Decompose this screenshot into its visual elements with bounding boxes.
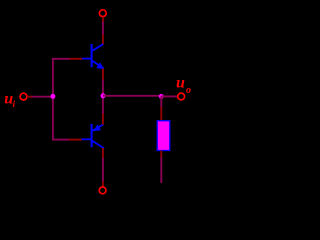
- wire (load node down, purple): [160, 96, 162, 107]
- transistor T1 (NPN): [82, 44, 105, 69]
- wire (top terminal lead, red): [102, 17, 104, 22]
- terminal -V (bottom supply): [99, 187, 106, 194]
- junction (emitter output node): [101, 93, 106, 98]
- wire (output node to T2 emitter, purple): [102, 96, 104, 115]
- wire (input terminal lead, red): [27, 96, 32, 98]
- wire (load node to output terminal, purple): [161, 95, 178, 97]
- resistor RL (load): [157, 121, 170, 151]
- terminal input: [20, 93, 27, 100]
- wire (input net to T1 base, purple): [52, 58, 70, 60]
- wire (T1 emitter to output node, purple): [102, 80, 104, 97]
- junction (input node on base rail): [50, 94, 55, 99]
- wire (bottom supply net, purple): [102, 158, 104, 182]
- wire (bottom terminal lead, red): [102, 181, 104, 187]
- wire (top supply net, purple): [102, 22, 104, 36]
- transistor T2 (PNP): [82, 124, 105, 148]
- wire (T1 emitter pin lead, red): [102, 69, 104, 80]
- wire (T2 collector pin lead, red): [102, 148, 104, 159]
- wire (load return net, purple): [160, 157, 162, 183]
- wire (output node to load node, purple): [103, 95, 161, 97]
- label u_i (input voltage): [4, 91, 15, 109]
- wire (resistor bottom pin lead, red): [160, 150, 162, 157]
- junction (load node): [159, 94, 164, 99]
- svg-text:u: u: [176, 75, 185, 92]
- wire (left vertical rail joining both bases, purple): [52, 58, 54, 141]
- terminal output: [178, 93, 185, 100]
- wire (T2 emitter pin lead, red): [102, 114, 104, 125]
- wire (T1 base pin lead, red): [69, 58, 82, 60]
- wire (T2 base pin lead, red): [69, 139, 82, 141]
- wire (resistor top pin lead, red): [160, 107, 162, 121]
- terminal +V (top supply): [99, 10, 106, 17]
- label u_o (output voltage): [176, 75, 191, 97]
- wire (T1 collector pin lead, red): [102, 35, 104, 45]
- svg-text:o: o: [186, 85, 191, 96]
- wire (input terminal to base node, purple): [32, 96, 54, 98]
- wire (input net to T2 base, purple): [52, 139, 70, 141]
